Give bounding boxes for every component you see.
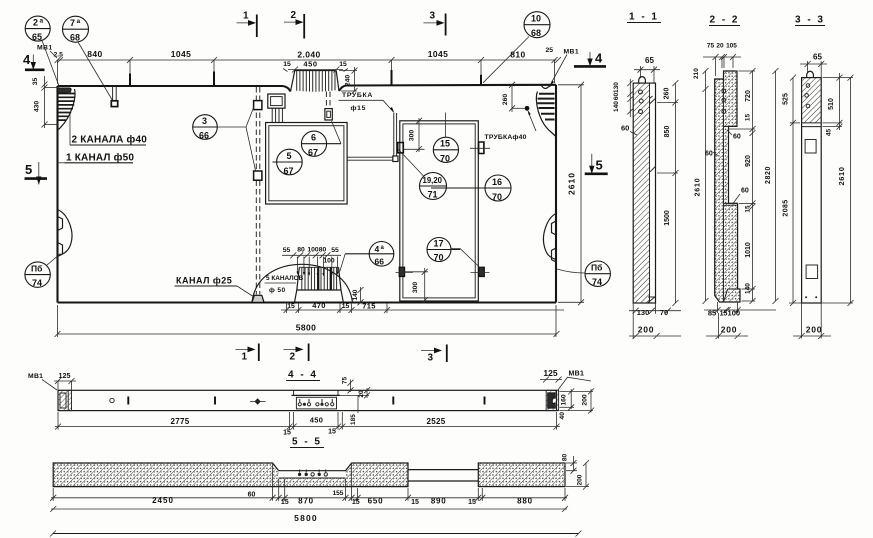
section 1-1 channel wedge top xyxy=(650,96,656,104)
callout circle 10/68 xyxy=(483,12,550,83)
right end block 4-4 xyxy=(546,390,558,410)
section 2-2 step lines xyxy=(724,126,741,302)
svg-text:2.040: 2.040 xyxy=(297,50,320,60)
svg-text:200: 200 xyxy=(806,325,823,335)
lifting hook 3-3 xyxy=(807,71,814,77)
top-right corner notch xyxy=(541,85,551,89)
dim 300 door top-left xyxy=(404,118,425,152)
section mark 4 left xyxy=(23,52,45,70)
top line of bottom ribs xyxy=(299,266,338,268)
svg-text:4: 4 xyxy=(595,51,603,66)
dim 125 + MV1 right (4-4) xyxy=(540,368,591,391)
svg-text:ТРУБКАф40: ТРУБКАф40 xyxy=(485,134,527,141)
svg-text:5800: 5800 xyxy=(294,513,318,523)
svg-text:16: 16 xyxy=(492,177,502,187)
lifting hook 1-1 xyxy=(639,77,646,83)
svg-text:a: a xyxy=(77,18,81,25)
svg-text:25: 25 xyxy=(546,47,554,54)
channel dashed line (1 kanal f50) xyxy=(256,87,260,295)
title 4-4 xyxy=(286,370,320,381)
section mark 5 left xyxy=(25,162,48,185)
callout circle 7a/68 xyxy=(63,16,113,100)
svg-text:450: 450 xyxy=(310,416,323,425)
svg-text:МВ1: МВ1 xyxy=(569,371,585,378)
right dims 80/200 (5-5) xyxy=(561,454,589,490)
svg-text:200: 200 xyxy=(576,474,583,485)
callout circle 16/70 xyxy=(431,175,511,202)
svg-text:15: 15 xyxy=(468,499,476,506)
svg-text:470: 470 xyxy=(312,301,325,310)
svg-text:260: 260 xyxy=(664,88,671,100)
callout circle 5/67 xyxy=(273,149,303,176)
square opening outer xyxy=(266,123,348,205)
bottom rib hatch lines xyxy=(302,267,337,290)
dim 65 (1-1 hook) xyxy=(634,56,660,83)
section 3-3 head bottom lines xyxy=(802,123,822,127)
svg-text:1010: 1010 xyxy=(745,242,752,258)
svg-text:КАНАЛ ф25: КАНАЛ ф25 xyxy=(176,276,232,286)
bottom-right edge notch 1 xyxy=(552,221,557,235)
svg-text:140: 140 xyxy=(352,289,359,300)
callout circle 2a/65 xyxy=(25,16,59,86)
thick edge ticks on top edge xyxy=(130,70,481,86)
section mark 1 (top) xyxy=(237,11,257,38)
svg-text:60: 60 xyxy=(621,124,629,133)
dim 125 left (4-4) xyxy=(54,371,76,390)
svg-text:2: 2 xyxy=(290,352,296,363)
label 1 KANAL f50 xyxy=(58,152,134,164)
svg-text:68: 68 xyxy=(70,33,80,43)
bottom-left edge arc xyxy=(58,210,72,257)
small circle on bar 4-4 xyxy=(110,398,114,402)
svg-text:1: 1 xyxy=(242,352,248,363)
svg-text:2820: 2820 xyxy=(765,166,772,184)
svg-text:5: 5 xyxy=(596,158,603,173)
svg-text:ф 50: ф 50 xyxy=(269,287,286,294)
svg-text:15: 15 xyxy=(283,430,291,437)
svg-text:100: 100 xyxy=(728,308,741,317)
label 60 with arrow (1-1 wall) xyxy=(621,124,637,136)
dims 75/20/105 (2-2 top) xyxy=(703,43,741,77)
svg-text:68: 68 xyxy=(531,28,541,38)
svg-text:15: 15 xyxy=(411,499,419,506)
section 1-1 right dim column 260/850/1500 xyxy=(657,80,678,306)
svg-text:70: 70 xyxy=(434,253,444,263)
svg-text:140: 140 xyxy=(744,283,751,294)
connector double line between openings xyxy=(348,157,394,160)
web section (5-5) xyxy=(408,470,478,481)
svg-text:3: 3 xyxy=(430,11,436,22)
svg-text:65: 65 xyxy=(645,56,654,65)
rib block outline xyxy=(291,71,340,92)
section 2-2 outline xyxy=(715,71,740,302)
section 2-2 hole circles xyxy=(722,89,726,93)
section 1-1 bottom dims 130/70 xyxy=(629,303,681,339)
svg-text:130: 130 xyxy=(637,308,650,317)
svg-text:880: 880 xyxy=(517,497,533,506)
svg-text:74: 74 xyxy=(592,277,602,287)
section 1-1 inner channel line xyxy=(649,83,651,303)
svg-text:70: 70 xyxy=(492,192,502,202)
svg-text:40: 40 xyxy=(559,412,566,420)
section 1-1 bottom wedge xyxy=(648,297,656,303)
dim 260 xyxy=(502,82,525,112)
svg-text:Пб: Пб xyxy=(591,263,602,273)
trubka f15 tube vertical double line xyxy=(394,113,397,157)
section 2-2 hatched body xyxy=(715,71,740,302)
dim 2610 between 1-1 and 2-2 xyxy=(693,68,709,304)
label 60 lower (2-2) xyxy=(733,188,749,204)
svg-text:105: 105 xyxy=(726,43,737,50)
dim 185 (4-4) xyxy=(350,395,358,425)
main dim row 2775/450/2525 (4-4) xyxy=(55,412,560,437)
label TRUBKA f40 xyxy=(485,110,537,142)
svg-text:85: 85 xyxy=(708,308,716,317)
svg-text:70: 70 xyxy=(660,308,668,317)
svg-text:17: 17 xyxy=(434,239,444,249)
section 3-3 hatched head xyxy=(802,78,822,123)
label 60 upper (2-2) xyxy=(727,130,741,141)
section 2-2 bottom dims 85/15/100 xyxy=(704,302,776,317)
section 3-3 bottom dots xyxy=(805,296,807,298)
svg-text:715: 715 xyxy=(362,302,375,311)
svg-text:1: 1 xyxy=(243,11,249,22)
svg-text:720: 720 xyxy=(745,90,752,102)
section 1-1 left dim column 130/60/140 xyxy=(613,79,634,117)
section 2-2 bottom dim 200 xyxy=(706,313,748,339)
callout circle 15/70 xyxy=(433,113,458,164)
bottom-left edge notch 2 xyxy=(58,243,63,257)
svg-text:80: 80 xyxy=(319,247,327,254)
svg-text:ТРУБКА: ТРУБКА xyxy=(342,92,373,99)
right dims 160/200/40 (4-4) xyxy=(559,388,594,419)
callout circle 19,20/71 xyxy=(399,150,447,200)
svg-text:5: 5 xyxy=(287,151,292,161)
embedded plate above square opening xyxy=(268,94,285,122)
panel outline left/bottom/right xyxy=(58,85,557,303)
svg-text:15: 15 xyxy=(287,303,295,310)
label KANAL f25 xyxy=(175,276,255,298)
svg-text:7: 7 xyxy=(70,18,75,28)
svg-text:430: 430 xyxy=(34,101,41,113)
recess in middle 4-4 xyxy=(292,390,341,409)
bar outline 4-4 xyxy=(58,390,557,410)
svg-text:66: 66 xyxy=(375,257,385,267)
svg-text:5: 5 xyxy=(25,162,32,177)
svg-text:2.5: 2.5 xyxy=(54,52,64,59)
section 3-3 void rect lower xyxy=(806,265,818,279)
svg-text:130: 130 xyxy=(613,82,620,93)
door clip right-bottom xyxy=(479,267,485,276)
door clip left-top xyxy=(398,143,404,153)
dim 2610 right of panel xyxy=(558,82,584,305)
svg-text:20: 20 xyxy=(358,390,365,398)
svg-text:67: 67 xyxy=(308,148,318,158)
svg-text:200: 200 xyxy=(638,325,655,335)
bottom ribbed block pedestal xyxy=(295,267,344,302)
callout circle 6/67 xyxy=(301,121,341,158)
section 3-3 void rect upper xyxy=(805,140,816,154)
section mark 3 bottom xyxy=(421,345,447,364)
title 1-1 xyxy=(627,12,661,23)
svg-text:10: 10 xyxy=(531,14,541,24)
dim row 55/80/100/80/55 xyxy=(282,247,341,277)
svg-text:840: 840 xyxy=(87,49,102,59)
title 3-3 xyxy=(795,15,825,26)
svg-text:1045: 1045 xyxy=(171,49,192,59)
tick line at right-top clip xyxy=(470,147,490,149)
svg-text:5 КАНАЛОВ: 5 КАНАЛОВ xyxy=(266,275,304,282)
dim 450 with 15/15 above rib block xyxy=(283,60,348,73)
section 3-3 bottom edge extensions xyxy=(789,302,853,304)
svg-text:6: 6 xyxy=(311,133,316,143)
svg-text:45: 45 xyxy=(825,129,832,137)
door clip left-bottom xyxy=(399,267,404,276)
svg-text:a: a xyxy=(381,245,385,251)
bottom-right edge arc xyxy=(543,214,556,260)
svg-text:100: 100 xyxy=(307,247,319,254)
section 1-1 hole circles xyxy=(639,90,643,94)
svg-text:75: 75 xyxy=(707,43,715,50)
svg-text:15: 15 xyxy=(744,114,751,122)
top dimension line 840/1045/2040/1045/810 xyxy=(55,57,562,84)
title 5-5 xyxy=(290,437,324,448)
channel coupler square lower xyxy=(254,171,262,180)
section 3-3 bottom dim 200 xyxy=(793,303,831,339)
svg-text:160: 160 xyxy=(560,394,567,406)
bottom center dome arc xyxy=(252,264,353,302)
top-left corner fan arc xyxy=(59,89,75,130)
callout circle 4a/66 xyxy=(340,242,394,272)
svg-text:35: 35 xyxy=(32,78,39,86)
section 2-2 right dim column xyxy=(728,68,756,304)
svg-text:2525: 2525 xyxy=(427,417,446,426)
left end block 4-4 xyxy=(58,390,72,410)
svg-text:3: 3 xyxy=(428,353,434,364)
label 5 KANALOV f50 xyxy=(265,275,304,294)
tray lines (5-5) xyxy=(279,477,346,479)
svg-text:15: 15 xyxy=(342,303,350,310)
door opening inner xyxy=(403,124,475,298)
dim row 15/470/15/715 xyxy=(281,301,564,313)
section 3-3 hole circles in head xyxy=(806,84,810,88)
svg-text:850: 850 xyxy=(664,126,671,138)
top center ribbed channel block xyxy=(291,71,340,92)
channel foot at bottom xyxy=(252,295,264,302)
door clip right-top xyxy=(479,142,484,154)
section 3-3 body outline xyxy=(802,78,822,303)
svg-text:67: 67 xyxy=(284,166,294,176)
section 3-3 right dims 510/45/2610 xyxy=(823,73,854,306)
svg-text:650: 650 xyxy=(368,497,384,506)
svg-text:3: 3 xyxy=(202,116,207,126)
svg-text:80: 80 xyxy=(561,454,568,462)
svg-text:60: 60 xyxy=(733,134,741,141)
anchor plate below top edge (7a target) xyxy=(111,86,117,107)
bottom border line (5-5) xyxy=(53,533,579,535)
svg-text:65: 65 xyxy=(813,53,822,62)
svg-text:890: 890 xyxy=(431,497,447,506)
svg-text:80: 80 xyxy=(297,247,305,254)
label 2 KANALA f40 xyxy=(70,114,147,146)
dim line 5800 xyxy=(55,305,560,337)
svg-text:4 - 4: 4 - 4 xyxy=(288,370,318,381)
section mark 5 right xyxy=(585,154,608,174)
label MV1 left (4-4) xyxy=(28,373,57,390)
svg-text:15: 15 xyxy=(283,61,291,68)
svg-text:2: 2 xyxy=(33,18,38,28)
panel outline top edge xyxy=(58,85,557,92)
diamond dot on bar 4-4 xyxy=(254,398,260,404)
svg-text:920: 920 xyxy=(745,155,752,167)
svg-text:1 КАНАЛ ф50: 1 КАНАЛ ф50 xyxy=(66,152,134,164)
hatched block B (5-5) xyxy=(478,463,565,487)
svg-text:Пб: Пб xyxy=(31,264,42,274)
svg-text:19,20: 19,20 xyxy=(423,176,443,185)
trubka f40 dot xyxy=(525,106,530,111)
callout circle 17/70 xyxy=(427,238,482,270)
svg-text:ф15: ф15 xyxy=(351,105,367,112)
svg-text:5800: 5800 xyxy=(296,323,317,333)
svg-text:70: 70 xyxy=(440,154,450,164)
corner plate lip top-left xyxy=(58,88,72,93)
svg-text:a: a xyxy=(40,18,44,25)
svg-text:210: 210 xyxy=(693,68,700,79)
svg-text:60: 60 xyxy=(248,492,256,499)
door opening outer xyxy=(400,121,479,301)
dim 75 (4-4) xyxy=(342,377,354,394)
svg-text:140: 140 xyxy=(613,101,620,112)
svg-text:2610: 2610 xyxy=(567,172,577,195)
bottom-left edge notch 1 xyxy=(58,217,63,231)
top-right corner fan bands xyxy=(537,94,554,120)
svg-text:2610: 2610 xyxy=(837,166,846,185)
svg-text:15: 15 xyxy=(720,310,728,317)
section mark 2 bottom xyxy=(284,344,309,363)
svg-text:2085: 2085 xyxy=(782,199,789,216)
section 1-1 bottom dim 200 xyxy=(629,325,681,340)
callout circle IIb/74 right xyxy=(557,261,610,287)
svg-text:МВ1: МВ1 xyxy=(564,49,580,56)
label TRUBKA f15 xyxy=(339,92,395,114)
svg-text:510: 510 xyxy=(828,98,835,110)
svg-text:5 - 5: 5 - 5 xyxy=(292,437,322,448)
svg-text:870: 870 xyxy=(298,497,314,506)
section 1-1 hatched wall xyxy=(633,83,649,303)
svg-text:200: 200 xyxy=(581,394,588,406)
svg-text:15: 15 xyxy=(328,429,336,436)
dim 300 door bottom-left xyxy=(404,268,428,303)
svg-text:100: 100 xyxy=(323,258,335,265)
svg-text:185: 185 xyxy=(350,414,357,425)
hatched block A (5-5) xyxy=(53,463,408,487)
svg-text:4: 4 xyxy=(375,244,380,254)
dim 140 pedestal xyxy=(352,287,364,305)
svg-text:810: 810 xyxy=(510,50,525,60)
svg-text:1500: 1500 xyxy=(664,210,671,226)
section 1-1 channel wedge mid xyxy=(650,166,656,172)
section mark 2 (top) xyxy=(284,10,304,39)
dim row 5800 (5-5) xyxy=(50,506,568,523)
svg-text:300: 300 xyxy=(409,130,416,142)
svg-text:450: 450 xyxy=(303,60,317,69)
top-right corner fan arc xyxy=(536,92,556,138)
svg-text:71: 71 xyxy=(428,190,438,200)
svg-text:155: 155 xyxy=(333,490,344,497)
callout circle 3/66 xyxy=(193,107,256,171)
dim 2820 (2-2 outer) xyxy=(765,68,779,304)
tray bolts (5-5) xyxy=(298,470,328,477)
svg-text:300: 300 xyxy=(412,282,419,294)
svg-text:1045: 1045 xyxy=(428,49,449,59)
label 60 left (2-2) xyxy=(705,151,718,158)
svg-text:1 - 1: 1 - 1 xyxy=(629,12,659,23)
title 2-2 xyxy=(709,15,740,26)
rib hatch lines xyxy=(297,71,335,92)
section mark 1 bottom xyxy=(236,344,259,363)
dim row 1 (5-5) xyxy=(50,464,568,506)
svg-text:15: 15 xyxy=(440,139,450,149)
svg-text:15: 15 xyxy=(744,205,751,213)
svg-text:55: 55 xyxy=(331,247,339,254)
svg-text:4: 4 xyxy=(23,52,31,67)
svg-text:75: 75 xyxy=(342,377,349,385)
fitting at top of square opening xyxy=(325,92,332,121)
svg-text:55: 55 xyxy=(283,247,291,254)
svg-text:65: 65 xyxy=(32,32,42,42)
svg-text:200: 200 xyxy=(721,325,738,335)
svg-text:2450: 2450 xyxy=(152,496,174,505)
svg-text:125: 125 xyxy=(543,368,557,378)
svg-text:2610: 2610 xyxy=(695,178,702,197)
svg-text:МВ1: МВ1 xyxy=(28,373,43,380)
svg-text:15: 15 xyxy=(281,499,289,506)
svg-text:20: 20 xyxy=(716,43,724,50)
block A outline (5-5) xyxy=(53,463,408,487)
tick marks on bar 4-4 xyxy=(128,397,484,405)
section mark 3 (top) xyxy=(423,11,445,36)
svg-text:60: 60 xyxy=(741,188,749,195)
callout circle IIb/74 left xyxy=(25,254,61,289)
svg-text:66: 66 xyxy=(199,131,209,141)
svg-text:3 - 3: 3 - 3 xyxy=(795,15,825,26)
svg-text:2 - 2: 2 - 2 xyxy=(709,15,739,26)
svg-text:74: 74 xyxy=(32,278,42,288)
section 3-3 left dim column 525/2085 xyxy=(782,75,800,306)
svg-text:2: 2 xyxy=(291,10,297,21)
section mark 4 right xyxy=(574,51,606,67)
svg-text:2775: 2775 xyxy=(171,417,190,426)
svg-text:15: 15 xyxy=(339,61,347,68)
left dim column 35/430 xyxy=(32,76,58,128)
svg-text:260: 260 xyxy=(502,94,509,106)
square opening inner xyxy=(269,126,344,201)
top-left corner fan hatch xyxy=(58,94,75,121)
trubka f15 elbow xyxy=(393,156,398,162)
section 2-2 inner wall line xyxy=(723,79,725,302)
dim 20 (4-4) xyxy=(340,387,370,398)
section 1-1 body outline xyxy=(633,83,655,303)
svg-text:2 КАНАЛА ф40: 2 КАНАЛА ф40 xyxy=(72,134,148,146)
bottom-right edge notch 2 xyxy=(552,248,557,262)
channel coupler square upper xyxy=(254,101,262,110)
dim 240 at rib block xyxy=(339,67,358,94)
svg-text:60: 60 xyxy=(613,93,620,101)
svg-text:15: 15 xyxy=(352,499,360,506)
svg-text:60: 60 xyxy=(705,151,713,158)
dim 65 (3-3 hook) xyxy=(800,53,827,78)
svg-text:525: 525 xyxy=(782,93,789,105)
